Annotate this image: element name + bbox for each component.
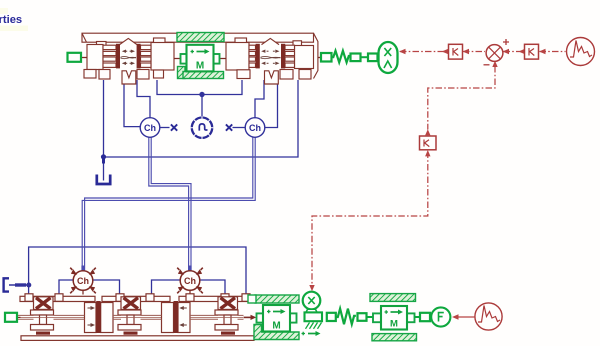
pad under G1 [36, 332, 50, 335]
rail port square x120 [116, 294, 124, 302]
clutch B2 arrow top [183, 307, 187, 309]
link line [361, 56, 369, 58]
clutch C1 wavy plates [121, 57, 137, 58]
arrowhead into multiplier bottom [492, 61, 497, 67]
svg-text:Ch: Ch [249, 123, 261, 133]
rail port square x150 [146, 294, 154, 302]
wire W9 right Ch right side [264, 80, 278, 128]
bottom casing rail segment 2 [102, 296, 170, 301]
spring top [332, 51, 351, 63]
glyph x right [226, 124, 232, 130]
port link bottom-left [17, 316, 21, 318]
signal wire gain2 to source [540, 51, 566, 53]
pulse waveform [478, 306, 500, 323]
source waveform [570, 41, 592, 58]
svg-text:M: M [390, 319, 398, 330]
bottom plate [21, 336, 254, 341]
brake X circle [303, 292, 321, 310]
green hatch block top of motor [177, 33, 224, 42]
hub block H2 [151, 43, 174, 71]
rail port square x190 [186, 294, 194, 302]
sensor F glyph [439, 313, 444, 322]
svg-text:M: M [196, 61, 204, 72]
gear G1 box [34, 297, 54, 310]
multiplier circle [486, 45, 503, 62]
fork C2-H4 prong 4 [285, 63, 295, 67]
link to M3 [367, 316, 374, 318]
wire W11 thick line right Ch down to bottom-left Ch [85, 137, 253, 271]
shaft segment 6 [238, 315, 244, 319]
brake X glyph [308, 297, 314, 304]
white square on hatch bar [248, 295, 256, 303]
gear G3 cross [221, 298, 236, 309]
foot under C1 right [137, 70, 149, 80]
wire W4 into left Ch top [137, 80, 150, 118]
casing notch square left [97, 42, 107, 47]
brake foot trapezoid [306, 309, 317, 312]
wire bottom-right Ch bottom stub [189, 290, 191, 294]
plus sign [503, 39, 509, 45]
pad under G2 [124, 332, 138, 335]
pulse source circle bottom [475, 303, 502, 330]
gain1 box [449, 44, 463, 59]
ibeam G2 stem [127, 315, 134, 325]
wire bottom-left Ch left leg [59, 280, 74, 295]
sensor omega circle [192, 118, 212, 138]
sensor Ch top-right [245, 118, 265, 138]
fork H1-C1 prong 3 [103, 57, 116, 61]
M bracket under clutch 1 [122, 71, 136, 84]
wire W1 left port of top casing down to zero source [103, 80, 105, 181]
motor M1 plus arrow [191, 50, 195, 53]
sensor Ch top-left [140, 118, 160, 138]
arrowhead into K bottom [425, 150, 430, 156]
signal wire feedback multiplier down [428, 66, 495, 130]
clutch B1 arrow bottom [88, 324, 92, 326]
fork H1-C1 prong 2 [103, 51, 116, 55]
svg-text:rties: rties [0, 14, 22, 26]
spring bottom right box [358, 313, 367, 321]
arrowhead into stadium [399, 49, 406, 54]
hub block H3 [226, 43, 249, 71]
brake plus arrow [302, 332, 306, 335]
shaft segment 5 [190, 315, 218, 319]
arrowhead out of gain1 [442, 49, 449, 54]
motor M3 plus arrow [385, 310, 389, 313]
ibeam G3 bottom bar [215, 325, 238, 331]
bottom casing rail segment 1 [20, 296, 95, 301]
gain K box [420, 136, 437, 150]
gear G2 cross [124, 298, 139, 309]
foot under C2 right [280, 70, 293, 80]
node junction dot omega bus [199, 92, 204, 97]
signal wire gain1 to multiplier [463, 51, 485, 53]
motor M1 tab left [181, 54, 187, 64]
fork C1-H2 prong 3 [141, 57, 152, 61]
casing notch H2 [154, 38, 166, 44]
clutch C2 arrow top-right [273, 50, 275, 52]
port box bottom-left green [5, 313, 17, 322]
clutch C2 wavy plates [261, 57, 281, 58]
arrowhead out of K top [425, 129, 430, 135]
hub block H4 [295, 46, 314, 69]
signal wire K input from below [312, 152, 428, 288]
sensor Ch bottom-right arrows [177, 268, 179, 270]
rail port square x59 [55, 294, 63, 302]
clutch B1 housing right [101, 303, 113, 333]
rail port square x225 [221, 294, 229, 302]
wire bottom-left Ch right leg [93, 280, 120, 295]
svg-text:Ch: Ch [144, 123, 156, 133]
node junction dot bottom-left [26, 283, 31, 288]
wire bottom-right Ch right leg [200, 280, 226, 295]
foot under H4 [299, 70, 311, 80]
glyph x left [171, 124, 177, 130]
shaft segment 2 [54, 315, 85, 319]
fork H1-C1 prong 1 [103, 45, 116, 49]
casing right end [314, 33, 318, 78]
casing peak over clutch 1 [120, 38, 138, 44]
feed end blob left [81, 266, 84, 271]
ibeam G1 stem [40, 315, 47, 325]
hub block H1 [87, 45, 103, 70]
shaft arrow into motor M2 [244, 316, 252, 318]
ibeam G1 bottom bar [31, 325, 54, 331]
sensor Ch bottom-left circle [73, 271, 93, 291]
arrowhead into gain1 right [463, 49, 470, 54]
fork C1-H2 prong 1 [141, 45, 152, 49]
top casing band [82, 33, 314, 42]
sensor F circle [431, 307, 450, 326]
port link left green box [81, 57, 87, 59]
clutch C1 plate left [116, 44, 120, 69]
port box top-left green [68, 53, 82, 62]
ibeam G2 bottom bar [118, 325, 141, 331]
wire bracket to junction [9, 284, 29, 286]
rail port square x246 [242, 294, 250, 302]
fork C1-H2 prong 2 [141, 51, 152, 55]
wire W3 into left Ch left side [124, 80, 140, 127]
arrowhead out of gain2 [519, 49, 526, 54]
wire W2 horizontal bus y157 [103, 80, 298, 157]
brake shaft block [305, 312, 323, 321]
motor M2 tab left [257, 313, 264, 322]
fork H3-C2 prong 4 [249, 63, 256, 67]
foot under H3 [237, 70, 250, 79]
fork H1-C1 prong 4 [103, 63, 116, 67]
clutch B1 arrow top [88, 307, 92, 309]
rotary load stadium [379, 42, 398, 73]
wire W12 long feedback line y247 [29, 247, 246, 296]
svg-text:M: M [272, 321, 280, 332]
feed end blob right [188, 266, 191, 271]
green hatch block below motor [183, 72, 224, 79]
clutch C2 arrow top-left [267, 50, 269, 52]
clutch C2 arrow bottom-left [267, 62, 269, 64]
signal wire stadium to gain1 [400, 51, 446, 53]
clutch B2 housing right [178, 303, 190, 333]
arrowhead into multiplier right [503, 49, 510, 54]
sensor Ch bottom-left arrows [70, 268, 72, 270]
shaft box right of brake [327, 313, 336, 321]
ibeam G2 top bar [118, 310, 141, 315]
casing peak over clutch 2 [262, 38, 280, 44]
gear G3 box [218, 297, 238, 310]
motor M1 body [187, 45, 214, 72]
arrowhead from source [539, 49, 546, 54]
wire bottom-left Ch bottom stub [82, 290, 84, 294]
fork C1-H2 prong 4 [141, 63, 152, 67]
port box before F sensor [420, 313, 430, 321]
motor M1 tab right [214, 54, 220, 64]
ibeam G1 top bar [31, 310, 54, 315]
zero force source bracket bottom-left [4, 278, 9, 291]
motor M3 tab right [407, 313, 415, 322]
shaft segment 1 [17, 315, 34, 319]
fork H3-C2 prong 3 [249, 57, 256, 61]
motor M3 body [381, 306, 407, 330]
link M3 to port [415, 316, 421, 318]
stadium glyph X [384, 48, 391, 56]
M bracket under clutch 2 [265, 71, 279, 84]
clutch C1 arrow bottom-right [130, 62, 132, 64]
clutch C2 plate left [256, 44, 260, 69]
foot under H2 [154, 70, 164, 78]
green hatch stub below motor left [178, 67, 186, 79]
green hatch above M3 [370, 294, 416, 302]
foot under H1 right [99, 70, 110, 80]
shaft mid lines [17, 316, 243, 318]
wire W8 into right Ch top [255, 80, 264, 118]
wire W6 left Ch to x [160, 127, 170, 129]
clutch C1 arrow top-right [130, 50, 132, 52]
rail port square x29 [25, 294, 33, 302]
green hatch L bottom [254, 325, 299, 340]
bottom casing rail segment 3 [179, 296, 249, 301]
fork C2-H4 prong 3 [285, 57, 295, 61]
pad under G3 [221, 332, 235, 335]
gear G1 cross [36, 298, 51, 309]
fork C2-H4 prong 2 [285, 51, 295, 55]
clutch C1 plate right [137, 44, 141, 69]
motor M2 tab right [290, 313, 297, 322]
rotary port box [368, 54, 378, 62]
minus sign [484, 64, 490, 66]
clutch C2 arrow bottom-right [273, 62, 275, 64]
shaft segment 4 [141, 315, 162, 319]
port link right [318, 57, 321, 59]
clutch B1 housing left [85, 303, 97, 333]
spring rest top: port box after casing [321, 53, 332, 62]
ibeam G3 top bar [215, 310, 238, 315]
fork C2-H4 prong 1 [285, 45, 295, 49]
svg-text:Ch: Ch [184, 276, 196, 286]
sensor Ch bottom-right circle [180, 271, 200, 291]
clutch C1 arrow bottom-left [125, 62, 127, 64]
motor M1 link left [174, 58, 226, 60]
signal wire multiplier to gain2 [504, 51, 524, 53]
gain2 box [525, 44, 539, 59]
node junction dot zero source [101, 154, 106, 159]
ibeam G3 stem [224, 315, 231, 325]
wire W7 x to right Ch [233, 127, 246, 129]
clutch B1 plate [96, 301, 101, 333]
spring top right box [351, 54, 361, 62]
arrowhead into F sensor [452, 314, 459, 319]
zero speed source bracket top [97, 175, 110, 185]
wire W10 thick line left Ch down to bottom-right Ch [149, 137, 189, 271]
motor M3 tab left [373, 313, 381, 322]
svg-text:Ch: Ch [77, 276, 89, 286]
brake ground hatching [306, 323, 322, 329]
motor M2 body [263, 305, 290, 332]
fork H3-C2 prong 1 [249, 45, 256, 49]
wire pulse to F sensor [458, 316, 475, 318]
casing notch square right [293, 41, 302, 47]
green hatch below M3 [372, 334, 417, 341]
signal source circle top [567, 38, 595, 66]
spring bottom [336, 309, 356, 325]
motor M2 plus arrow [267, 310, 271, 313]
foot under H1 left [84, 70, 96, 79]
fork H3-C2 prong 2 [249, 51, 256, 55]
highlight smudge [0, 26, 28, 32]
wire W5 motor mount bus to omega sensor [157, 80, 242, 117]
stadium glyph caret [384, 61, 392, 68]
clutch C1 arrow top-left [125, 50, 127, 52]
gear G2 box [121, 297, 141, 310]
clutch B2 housing left [162, 303, 174, 333]
arrowhead into brake circle [309, 285, 314, 291]
casing left end slant [82, 33, 87, 42]
clutch B2 arrow bottom [183, 324, 187, 326]
clutch B2 plate [174, 301, 179, 333]
shaft segment 3 [113, 315, 121, 319]
green hatch bar bottom top-side [255, 295, 299, 303]
wire bottom-right Ch left leg [152, 280, 181, 295]
casing notch H3 [235, 38, 247, 44]
clutch C2 plate right [281, 44, 285, 69]
